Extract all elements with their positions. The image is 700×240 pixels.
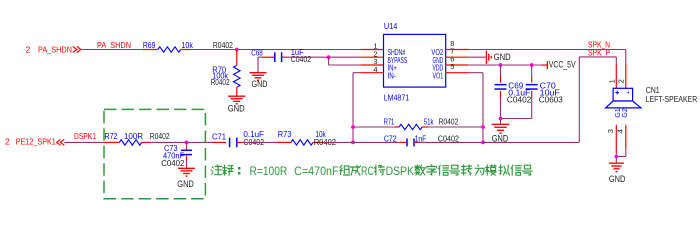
ground below speaker: [609, 163, 626, 184]
svg-text:R=100R: R=100R: [250, 164, 288, 178]
junction DSPK/C73: [185, 141, 189, 145]
svg-text:IN-: IN-: [388, 71, 397, 80]
svg-text:R0402: R0402: [213, 41, 233, 50]
wire pin7 to ground: [469, 56, 486, 58]
wire R72 to C71: [150, 141, 212, 143]
pin 2 stub U14: [361, 56, 384, 58]
svg-text:G2: G2: [622, 108, 629, 117]
svg-text:100R: 100R: [124, 132, 143, 141]
svg-text:SPK_P: SPK_P: [588, 48, 610, 57]
pin 8 stub U14: [446, 49, 469, 51]
pin name BYPASS: [388, 56, 408, 65]
pin number 2 (rotated): [616, 79, 625, 83]
svg-text:2: 2: [5, 137, 10, 147]
capacitor C71 0.1uF C0402: [212, 130, 264, 147]
pin 4 stub U14: [361, 72, 384, 74]
svg-text:R69: R69: [143, 41, 156, 50]
svg-text:5: 5: [450, 62, 454, 71]
pin number 5: [450, 62, 454, 71]
wire C71 to R73: [243, 141, 278, 143]
ground below C69/C70: [492, 124, 510, 143]
wire SPK_P riser and run: [579, 57, 616, 142]
wire U14 pin4 to IN- node: [353, 73, 361, 143]
junction VO1/C72: [481, 141, 485, 145]
wire R69 to U14 pin1: [191, 49, 361, 51]
pin 1 stub U14: [361, 49, 384, 51]
pin number 7: [450, 47, 454, 56]
speaker label LEFT-SPEAKER: [646, 95, 698, 104]
svg-text:RC: RC: [361, 164, 374, 178]
svg-text:GND: GND: [228, 103, 245, 113]
speaker label CN1: [646, 86, 660, 95]
resistor R69 10k R0402: [143, 41, 233, 52]
wire VO1 down: [469, 73, 483, 143]
svg-text:GND: GND: [494, 52, 511, 62]
net label PA_SHDN: [97, 41, 131, 50]
svg-text:PA_SHDN: PA_SHDN: [97, 41, 131, 50]
svg-text:GND: GND: [177, 179, 194, 189]
pin 3 stub U14: [361, 64, 384, 66]
wire R71 to VO1 node: [428, 126, 483, 128]
pin number 2: [373, 49, 377, 58]
pin number 3: [373, 57, 377, 66]
ground below C68: [250, 73, 268, 90]
svg-text:VO1: VO1: [433, 71, 444, 80]
svg-text:C0603: C0603: [539, 95, 564, 104]
wire PA_SHDN to R69: [81, 49, 143, 51]
capacitor C68 1uF C0402: [251, 48, 311, 64]
svg-text:C68: C68: [251, 48, 263, 57]
junction C69/C70 gnd: [499, 117, 503, 121]
pin 6 stub U14: [446, 64, 469, 66]
port PE12_SPK1 (sheet entry 2): [5, 137, 64, 147]
pin name VDD: [433, 64, 444, 73]
junction node PA_SHDN/R70: [235, 48, 239, 52]
svg-text:LM4871: LM4871: [384, 93, 410, 103]
svg-text:GND: GND: [252, 79, 268, 89]
net label SPK_N: [588, 40, 610, 49]
net label SPK_P: [588, 48, 610, 57]
wire C73 to ground: [186, 161, 188, 168]
pin name IN+: [388, 64, 398, 73]
connector pin 4 stub: [625, 125, 627, 149]
junction speaker gnd: [615, 155, 619, 159]
svg-text:C0402: C0402: [161, 159, 185, 168]
junction IN-/C72: [351, 141, 355, 145]
svg-text:R0402: R0402: [150, 132, 170, 141]
svg-text:U14: U14: [384, 21, 398, 31]
resistor R70 100k R0402: [211, 65, 240, 96]
pin name IN-: [388, 71, 397, 80]
junction VDD/C69: [499, 63, 503, 67]
note text (green annotation): [211, 164, 532, 178]
wire join pins 3-4: [616, 149, 626, 163]
pin number 1 (rotated): [608, 79, 617, 83]
svg-text:C=470nF: C=470nF: [294, 164, 339, 178]
connector pin 3 stub: [615, 125, 617, 153]
wire DSPK1 to R72: [64, 141, 104, 143]
connector pin 2 stub: [625, 64, 627, 88]
wire C70 upper: [531, 65, 533, 77]
pin number 8: [450, 39, 454, 48]
pin name G1 (rotated): [615, 108, 622, 117]
svg-text:R0402: R0402: [211, 78, 230, 87]
pin name GND: [433, 56, 444, 65]
speaker CN1 body: [606, 88, 641, 108]
svg-text:R73: R73: [278, 130, 292, 139]
wire R70 top lead: [236, 50, 238, 66]
op-amp U14 LM4871 body: [384, 21, 446, 103]
capacitor C70 10uF C0603: [526, 77, 564, 104]
capacitor C69 0.1uF C0402: [495, 77, 532, 104]
junction IN-/R71: [351, 125, 355, 129]
pin name VO2: [431, 48, 443, 57]
port PA_SHDN (sheet entry 2): [26, 44, 81, 54]
pin name VO1: [433, 71, 444, 80]
wire IN- to R71: [353, 126, 394, 128]
pin number 3 (rotated): [606, 129, 615, 133]
wire VO1 rail to SPK_P riser: [483, 141, 579, 143]
svg-text:2: 2: [616, 79, 625, 83]
ground below C73: [177, 168, 195, 189]
connector pin 1 stub: [615, 64, 617, 88]
svg-text:2: 2: [26, 44, 31, 54]
wire R73 to IN- node: [323, 141, 353, 143]
svg-text:51k: 51k: [424, 118, 435, 127]
ground below R70: [228, 96, 246, 113]
pin number 1: [373, 42, 377, 51]
wire VO2 to speaker (SPK_N): [469, 50, 626, 65]
wire U14 pin2 to C68: [288, 56, 361, 58]
svg-text:DSPK1: DSPK1: [74, 132, 96, 141]
resistor R72 100R R0402: [104, 132, 170, 145]
wire C73 upper: [186, 142, 188, 147]
capacitor C73 470nF C0402: [161, 144, 192, 168]
svg-text:10k: 10k: [181, 41, 193, 50]
svg-text:DSPK: DSPK: [386, 164, 414, 178]
ground at pin 7 (sideways): [486, 51, 511, 64]
pin 5 stub U14: [446, 72, 469, 74]
pin name SHDN#: [388, 48, 406, 57]
svg-text:VCC_5V: VCC_5V: [549, 60, 576, 70]
wire IN- to C72: [353, 141, 400, 143]
junction VDD/C70: [530, 63, 534, 67]
svg-text:LEFT-SPEAKER: LEFT-SPEAKER: [646, 95, 698, 104]
wire to ground: [500, 119, 502, 125]
wire jog pin3 to bypass node: [329, 57, 361, 65]
pin number 4: [373, 65, 377, 74]
capacitor C72 1nF C0402: [384, 134, 460, 146]
svg-text:CN1: CN1: [646, 86, 660, 95]
svg-text:3: 3: [606, 129, 615, 133]
svg-text:GND: GND: [609, 174, 626, 184]
wire C68 to ground: [258, 57, 262, 72]
svg-text:R71: R71: [384, 118, 395, 127]
junction BYPASS/IN+: [327, 55, 331, 59]
svg-text:C0402: C0402: [291, 55, 312, 64]
wire C70 lower to C69: [501, 98, 532, 119]
power symbol VCC_5V: [541, 60, 575, 70]
svg-text:C0402: C0402: [507, 95, 532, 104]
resistor R73 10k R0402: [278, 130, 337, 147]
wire C69 lower: [500, 98, 502, 119]
resistor R71 51k R0402: [384, 118, 459, 130]
svg-text:PA_SHDN: PA_SHDN: [38, 44, 72, 54]
svg-text:GND: GND: [492, 134, 509, 144]
wire C69 upper: [500, 65, 502, 77]
pin number 4 (rotated): [616, 129, 625, 133]
wire VDD rail: [469, 64, 542, 66]
svg-text:R0402: R0402: [439, 118, 459, 127]
svg-text:R72: R72: [105, 132, 118, 141]
net label DSPK1: [74, 132, 96, 141]
pin number 6: [450, 54, 454, 63]
svg-text:C71: C71: [212, 133, 227, 142]
junction VO1/R71: [481, 125, 485, 129]
svg-text:C72: C72: [384, 134, 397, 143]
pin name G2 (rotated): [622, 108, 629, 117]
svg-text:G1: G1: [615, 108, 622, 117]
svg-text:1: 1: [608, 79, 617, 83]
pin 7 stub U14: [446, 56, 469, 58]
svg-text:PE12_SPK1: PE12_SPK1: [16, 137, 56, 147]
wire C72 to VO1 node: [418, 141, 484, 143]
annotation dashed box: [104, 109, 205, 198]
